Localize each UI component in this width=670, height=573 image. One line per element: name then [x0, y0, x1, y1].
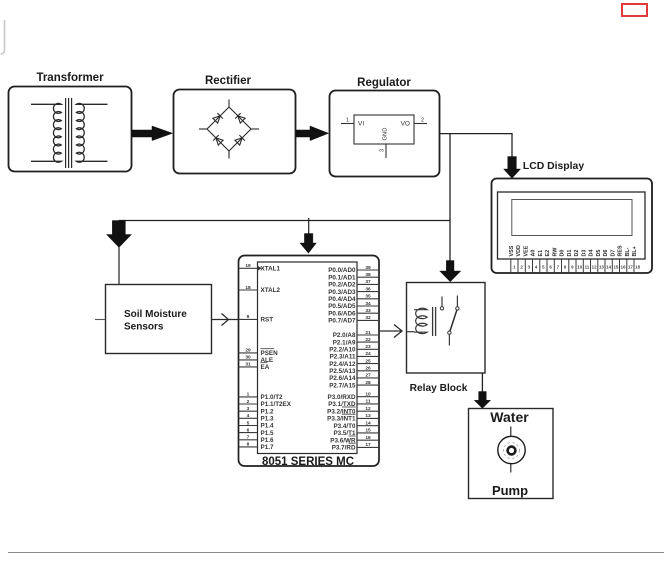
svg-text:8051 SERIES MC: 8051 SERIES MC [262, 456, 354, 468]
svg-text:28: 28 [365, 380, 371, 386]
8051 pin 29 PSEN [239, 348, 279, 357]
svg-text:14: 14 [606, 265, 611, 270]
svg-text:BL-: BL- [625, 247, 631, 256]
thick arrow rectifier to regulator [296, 126, 329, 141]
svg-text:P0.2/AD2: P0.2/AD2 [328, 282, 356, 289]
LCD pin 15 D7 [610, 250, 619, 272]
svg-text:D6: D6 [603, 250, 609, 257]
8051 pin 12 P3.2/INT0 [327, 406, 379, 415]
diode D2 (top-right edge) [235, 113, 245, 123]
svg-text:16: 16 [621, 265, 626, 270]
svg-text:3: 3 [380, 149, 386, 152]
svg-text:23: 23 [365, 344, 371, 350]
svg-text:12: 12 [592, 265, 597, 270]
svg-text:Sensors: Sensors [124, 322, 164, 333]
svg-text:P1.4: P1.4 [261, 423, 274, 430]
8051 pin 19 XTAL1 [239, 263, 281, 272]
block 8051 outer box [239, 256, 380, 467]
svg-text:P2.2/A10: P2.2/A10 [329, 347, 356, 354]
svg-text:P2.4/A12: P2.4/A12 [329, 361, 356, 368]
svg-text:16: 16 [365, 435, 371, 441]
8051 pin 31 EA [239, 362, 270, 371]
svg-text:P3.3/INT1: P3.3/INT1 [327, 416, 356, 423]
svg-text:D7: D7 [610, 250, 616, 257]
svg-text:12: 12 [365, 406, 371, 412]
8051 pin 34 P0.5/AD5 [328, 301, 379, 310]
svg-text:9: 9 [247, 314, 250, 320]
relay switch blade [450, 310, 457, 331]
svg-text:P0.4/AD4: P0.4/AD4 [328, 296, 356, 303]
LCD pin 1 VSS [509, 245, 516, 272]
svg-text:10: 10 [577, 265, 582, 270]
svg-text:25: 25 [365, 358, 371, 364]
svg-text:30: 30 [245, 355, 251, 361]
svg-text:GND: GND [383, 128, 389, 141]
LCD pin 5 E1 [538, 250, 545, 272]
svg-text:18: 18 [245, 285, 251, 291]
8051 pin 16 P3.6/WR [330, 435, 379, 444]
svg-text:P0.6/AD6: P0.6/AD6 [328, 310, 356, 317]
svg-text:21: 21 [365, 330, 371, 336]
pump motor dashed inner arcs [504, 443, 520, 459]
block Relay box [407, 283, 486, 374]
svg-text:P0.5/AD5: P0.5/AD5 [328, 303, 356, 310]
svg-text:10: 10 [365, 392, 371, 398]
svg-text:39: 39 [365, 265, 371, 271]
8051 pin 35 P0.4/AD4 [328, 294, 379, 303]
LCD pin 14 D6 [603, 250, 612, 272]
svg-text:32: 32 [365, 315, 371, 321]
transformer T1 secondary winding [76, 103, 107, 162]
svg-text:P3.7/RD: P3.7/RD [332, 445, 356, 452]
relay coil K1 [414, 308, 427, 333]
LCD pin 13 D5 [596, 250, 605, 272]
svg-text:27: 27 [365, 373, 371, 379]
thick arrow into LCD [504, 157, 521, 179]
8051 pin 39 P0.0/AD0 [328, 265, 379, 274]
transformer T1 core [65, 98, 67, 168]
svg-text:P2.7/A15: P2.7/A15 [329, 382, 356, 389]
8051 IC inner box [258, 262, 358, 454]
svg-text:Pump: Pump [492, 483, 528, 498]
svg-text:3: 3 [247, 406, 250, 412]
8051 pin 5 P1.4 [239, 420, 274, 429]
svg-text:P0.0/AD0: P0.0/AD0 [328, 267, 356, 274]
svg-text:P0.7/AD7: P0.7/AD7 [328, 318, 356, 325]
wire regulator output to LCD corner [440, 134, 512, 157]
svg-text:37: 37 [365, 279, 371, 285]
8051 pin 30 ALE [239, 355, 274, 364]
8051 pin 4 P1.3 [239, 413, 274, 422]
svg-text:2: 2 [421, 118, 424, 124]
svg-text:D1: D1 [567, 250, 573, 257]
block Regulator box [330, 91, 440, 177]
thick arrow transformer to rectifier [132, 126, 173, 141]
svg-text:24: 24 [365, 351, 371, 357]
svg-text:P2.3/A11: P2.3/A11 [330, 354, 356, 361]
svg-text:P3.4/T0: P3.4/T0 [333, 423, 356, 430]
svg-text:11: 11 [365, 399, 370, 405]
bridge stub bottom [228, 151, 230, 159]
relay switch pole [448, 331, 451, 334]
svg-text:35: 35 [365, 294, 371, 300]
svg-text:14: 14 [365, 421, 371, 427]
pump shaft top [510, 427, 512, 437]
svg-text:P0.1/AD1: P0.1/AD1 [328, 274, 356, 281]
8051 pin 13 P3.3/INT1 [327, 413, 379, 422]
svg-text:17: 17 [365, 442, 371, 448]
8051 pin 37 P0.2/AD2 [328, 279, 379, 288]
svg-text:BL+: BL+ [632, 246, 638, 256]
relay core lines [432, 307, 434, 336]
LCD pin 11 D3 [581, 250, 589, 272]
wire horizontal bus [119, 220, 451, 222]
relay switch fixed contact left [441, 297, 443, 307]
pump motor M1 circle [498, 436, 525, 463]
svg-text:P2.0/A8: P2.0/A8 [333, 332, 356, 339]
svg-text:VSS: VSS [509, 245, 515, 256]
8051 pin 27 P2.6/A14 [329, 373, 379, 382]
LCD pin 10 D2 [574, 250, 583, 272]
svg-text:19: 19 [245, 263, 251, 269]
svg-text:A0: A0 [531, 250, 537, 257]
thick arrow into relay block [440, 261, 461, 282]
LCD pin 2 VDD [516, 245, 523, 272]
8051 pin 25 P2.4/A12 [329, 358, 379, 367]
LCD pin 6 E2 [545, 250, 552, 272]
wire 8051 to relay with open arrowhead [379, 330, 401, 332]
svg-text:4: 4 [247, 413, 250, 419]
LCD pin 7 RW [552, 247, 559, 272]
8051 pin 33 P0.6/AD6 [328, 308, 379, 317]
LCD pin 4 A0 [531, 250, 538, 272]
svg-text:34: 34 [365, 301, 371, 307]
svg-text:Regulator: Regulator [357, 77, 411, 89]
svg-text:13: 13 [599, 265, 604, 270]
relay coil lead [407, 331, 415, 333]
svg-text:VO: VO [401, 121, 410, 128]
wire bus down to relay [449, 221, 451, 262]
svg-text:36: 36 [365, 286, 371, 292]
8051 pin 21 P2.0/A8 [333, 330, 379, 339]
svg-text:7: 7 [247, 435, 250, 441]
svg-text:RES: RES [618, 245, 624, 256]
block Soil Moisture Sensors box [106, 285, 212, 354]
svg-text:15: 15 [365, 428, 371, 434]
block LCD outer box [492, 179, 653, 274]
svg-text:Relay Block: Relay Block [410, 383, 468, 394]
LCD module rect [498, 192, 646, 259]
svg-text:E2: E2 [545, 250, 551, 257]
svg-text:EA: EA [261, 364, 270, 371]
svg-text:VEE: VEE [523, 245, 529, 256]
8051 pin 7 P1.6 [239, 435, 274, 444]
svg-text:18: 18 [635, 265, 640, 270]
svg-text:RST: RST [261, 317, 274, 324]
svg-text:RW: RW [552, 247, 558, 257]
svg-text:P1.6: P1.6 [261, 437, 274, 444]
regulator pin 1 lead [341, 123, 354, 125]
regulator IC U1 body [354, 115, 414, 144]
8051 pin 24 P2.3/A11 [330, 351, 379, 360]
pump motor hub [508, 447, 516, 455]
svg-text:D3: D3 [581, 250, 587, 257]
svg-text:33: 33 [365, 308, 371, 314]
svg-text:31: 31 [245, 362, 251, 368]
block Water Pump box [469, 409, 554, 499]
svg-text:13: 13 [365, 413, 371, 419]
8051 pin 14 P3.4/T0 [333, 421, 379, 430]
svg-text:15: 15 [613, 265, 618, 270]
regulator pin 3 lead [385, 144, 387, 158]
LCD pin 3 VEE [523, 245, 530, 272]
8051 pin 38 P0.1/AD1 [328, 272, 379, 281]
svg-text:P1.5: P1.5 [261, 430, 274, 437]
bridge stub left [199, 128, 207, 130]
8051 pin 1 P1.0/T2 [239, 392, 284, 401]
svg-text:P0.3/AD3: P0.3/AD3 [328, 289, 356, 296]
LCD pin 12 D4 [589, 250, 598, 272]
svg-text:P1.1/T2EX: P1.1/T2EX [261, 401, 292, 408]
8051 pin 9 RST [239, 314, 274, 323]
svg-text:38: 38 [365, 272, 371, 278]
svg-text:P2.6/A14: P2.6/A14 [329, 375, 356, 382]
8051 pin 23 P2.2/A10 [329, 344, 379, 353]
svg-text:LCD Display: LCD Display [523, 161, 584, 172]
diode D3 (bottom-left edge) [213, 135, 223, 145]
svg-text:8: 8 [247, 442, 250, 448]
svg-text:VI: VI [358, 121, 364, 128]
wire soil arrow to box [118, 247, 120, 284]
thick arrow into water pump [474, 392, 490, 409]
relay switch fixed contact right [456, 296, 458, 307]
svg-text:VDD: VDD [516, 245, 522, 256]
svg-text:P1.3: P1.3 [261, 416, 274, 423]
decor: gray horizontal rule near bottom [8, 552, 664, 554]
svg-text:22: 22 [365, 337, 371, 343]
LCD screen rect [512, 200, 632, 236]
svg-text:XTAL2: XTAL2 [261, 287, 281, 294]
thick arrow into 8051 [300, 234, 317, 254]
8051 pin 26 P2.5/A13 [329, 366, 379, 375]
stub left of soil box [95, 319, 105, 321]
svg-text:P1.0/T2: P1.0/T2 [261, 394, 284, 401]
LCD pin 9 D1 [567, 250, 574, 272]
svg-text:P1.7: P1.7 [261, 444, 274, 451]
svg-text:E1: E1 [538, 250, 544, 257]
LCD pin 18 BL+ [632, 246, 641, 272]
bridge stub top [228, 100, 230, 108]
decor: red outline box at top-right [622, 4, 647, 16]
svg-text:17: 17 [628, 265, 633, 270]
svg-text:6: 6 [247, 427, 250, 433]
transformer T1 primary winding [31, 103, 61, 162]
diode D4 (bottom-right edge) [235, 135, 245, 145]
svg-text:2: 2 [247, 399, 250, 405]
svg-text:P2.5/A13: P2.5/A13 [329, 368, 356, 375]
svg-text:P2.1/A9: P2.1/A9 [333, 339, 356, 346]
svg-text:Soil Moisture: Soil Moisture [124, 309, 187, 320]
svg-text:D5: D5 [596, 250, 602, 257]
svg-text:D2: D2 [574, 250, 580, 257]
svg-text:26: 26 [365, 366, 371, 372]
LCD pin 16 RES [618, 245, 627, 272]
wire relay to pump [481, 373, 483, 392]
thick arrow into soil moisture sensors [107, 221, 132, 248]
svg-text:1: 1 [346, 118, 349, 124]
8051 pin 3 P1.2 [239, 406, 274, 415]
diode D1 (top-left edge) [213, 113, 223, 123]
wire soil sensors to 8051 RST with open arrowhead [212, 319, 239, 321]
svg-text:PSEN: PSEN [261, 350, 279, 357]
8051 pin 8 P1.7 [239, 442, 274, 451]
pump shaft bottom [510, 464, 512, 473]
svg-text:XTAL1: XTAL1 [261, 266, 281, 273]
svg-text:Water: Water [490, 409, 529, 425]
8051 pin 10 P3.0/RXD [328, 392, 380, 401]
bridge stub right [251, 128, 259, 130]
regulator pin 2 lead [414, 123, 427, 125]
svg-text:29: 29 [245, 348, 251, 354]
8051 pin 15 P3.5/T1 [333, 428, 379, 437]
wire branch down from regulator line [449, 134, 451, 221]
svg-text:D0: D0 [560, 250, 566, 257]
8051 pin 2 P1.1/T2EX [239, 399, 292, 408]
bridge rectifier diamond [207, 107, 251, 151]
8051 pin 36 P0.3/AD3 [328, 286, 379, 295]
decor: partial gray rounded box at top-left edge [1, 20, 5, 54]
svg-text:Transformer: Transformer [36, 72, 104, 84]
block Transformer box [9, 87, 132, 172]
8051 pin 32 P0.7/AD7 [328, 315, 379, 324]
8051 pin 18 XTAL2 [239, 285, 281, 294]
LCD pin 8 D0 [560, 250, 567, 272]
8051 pin 28 P2.7/A15 [329, 380, 379, 389]
svg-text:5: 5 [247, 420, 250, 426]
svg-text:D4: D4 [589, 250, 595, 257]
8051 pin 11 P3.1/TXD [328, 399, 379, 408]
svg-text:11: 11 [585, 265, 590, 270]
8051 pin 17 P3.7/RD [332, 442, 379, 451]
wire stub above 8051 arrow [308, 218, 310, 234]
svg-text:1: 1 [247, 392, 250, 398]
block Rectifier box [174, 90, 296, 174]
8051 pin 6 P1.5 [239, 427, 274, 436]
8051 pin 22 P2.1/A9 [333, 337, 379, 346]
svg-text:Rectifier: Rectifier [205, 75, 252, 87]
svg-text:P1.2: P1.2 [261, 408, 274, 415]
LCD pin 17 BL- [625, 247, 634, 272]
svg-text:P3.0/RXD: P3.0/RXD [328, 394, 356, 401]
